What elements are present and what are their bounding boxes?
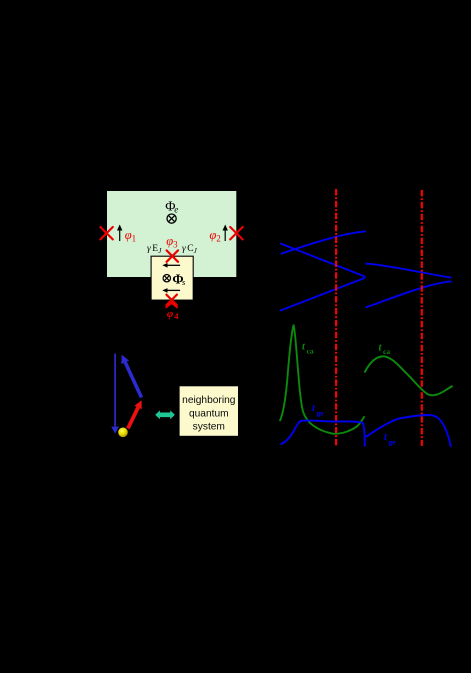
label t_ca (green, left panel) [302,342,314,356]
yellow ball at vector origin [118,428,128,438]
junction X3 (coupler junction, top of yellow box) [167,250,178,261]
phase label phi_4 [167,308,179,321]
red dash-dot bias line 2 [421,190,423,446]
svg-text:C: C [187,244,193,254]
label t_ge (blue, left panel) [312,403,324,418]
svg-text:e: e [174,205,178,215]
circulating current arrow (lower, points left) [162,288,180,293]
svg-text:quantum: quantum [189,408,229,419]
neighboring quantum system text [182,395,236,433]
energy level curve R2 (right panel, lower branch) [366,281,452,307]
Bloch vector: thin blue downward arrow [111,354,119,434]
svg-text:ge: ge [317,408,325,417]
tunneling amplitude curve B2 (blue plateau, right panel) [366,415,451,447]
svg-text:ca: ca [307,347,314,356]
coupler flux label Phi_s [172,271,186,287]
svg-text:t: t [312,403,316,414]
qubit loop (pale green rectangle) [107,191,236,277]
junction parameter label gamma-E_J [147,244,162,255]
flux symbol (circled X) for Phi_e [167,214,176,223]
svg-text:neighboring: neighboring [182,395,236,406]
junction X2 (right Josephson junction) [230,227,242,239]
svg-text:t: t [302,342,306,353]
phase label phi_1 [125,228,136,244]
teal coupling double arrow [155,410,175,419]
junction X1 (left Josephson junction) [100,227,112,239]
phase direction arrow (left) [117,225,122,242]
external flux label Phi_e [165,200,178,215]
label t_ca (green, right panel) [379,343,391,357]
svg-text:4: 4 [174,311,179,321]
circulating current arrow (upper, points left) [162,263,180,268]
junction X4 (bottom junction) [166,295,177,306]
red dash-dot bias line 1 [335,189,337,447]
svg-text:1: 1 [132,234,137,244]
phase label phi_2 [209,228,220,244]
coupler loop box with flux Phi_s (pale yellow) [151,256,193,300]
svg-text:t: t [379,343,383,354]
tunneling amplitude curve G2 (green hump, right panel) [365,356,453,395]
chevron below X4 [166,303,177,308]
tunneling amplitude curve B1 (blue plateau, left panel) [280,421,364,447]
junction parameter label gamma-C_J [182,244,198,255]
svg-text:γ: γ [147,244,151,254]
svg-text:3: 3 [173,240,178,250]
svg-text:system: system [193,421,225,432]
svg-text:t: t [384,432,388,443]
Bloch vector: thick red arrow [128,400,142,428]
flux symbol (circled X) for Phi_s [163,275,170,282]
phase direction arrow (right) [223,225,228,242]
Bloch vector: thick blue arrow (state vector) [121,355,141,398]
phase label phi_3 [166,234,178,250]
tunneling amplitude curve G1 (green sharp peak, left panel) [280,325,365,434]
energy level curve R1 (right panel, upper branch) [366,264,452,278]
svg-text:φ: φ [167,308,174,320]
energy level curve L2 (left panel, rising flattening line) [281,231,366,253]
neighboring quantum system box [179,385,239,436]
svg-text:ca: ca [383,347,390,356]
svg-text:ge: ge [389,438,397,447]
svg-text:2: 2 [216,234,221,244]
label t_ge (blue, right panel) [384,432,396,447]
energy level curve L1 (left panel, bent line with vertex) [280,243,365,310]
svg-text:γ: γ [182,244,186,254]
